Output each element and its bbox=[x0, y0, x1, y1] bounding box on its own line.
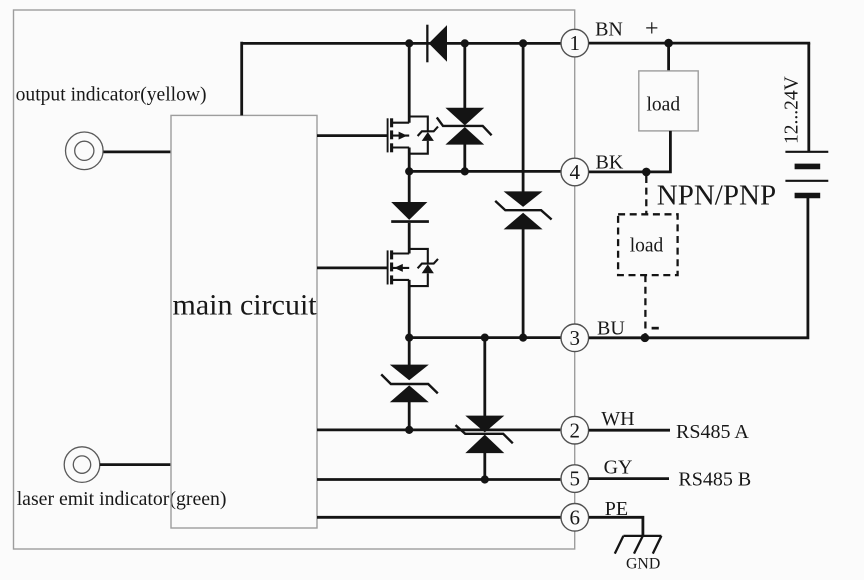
wire: PE bus bbox=[317, 516, 561, 519]
TVS D5 (bidirectional suppressor) bbox=[381, 365, 438, 403]
ground symbol bbox=[615, 536, 662, 554]
wire: BK node to diode D2 bbox=[408, 171, 411, 202]
wire: Q2 gate lead bbox=[317, 266, 388, 269]
wire: rail from top bus to TVS D4 bbox=[522, 43, 525, 191]
svg-text:WH: WH bbox=[601, 408, 634, 430]
svg-text:GY: GY bbox=[604, 457, 633, 479]
wire: TVS D6 to GY bus bbox=[483, 453, 486, 480]
svg-text:5: 5 bbox=[570, 467, 581, 491]
junction: BU / Q2 source bbox=[405, 334, 413, 342]
terminal 2 bbox=[561, 416, 589, 444]
transistor Q1 (high-side MOSFET with body zener) bbox=[388, 117, 438, 154]
junction: BK / TVS D3 bbox=[461, 167, 469, 175]
sensor enclosure outline bbox=[14, 10, 575, 549]
wire: battery positive lead bbox=[807, 43, 810, 152]
junction: BK / dashed load tap bbox=[642, 168, 651, 177]
TVS D4 (bidirectional suppressor) bbox=[495, 191, 551, 229]
transistor Q2 (low-side MOSFET with body zener) bbox=[388, 249, 438, 286]
dashed wire: dashed load to BU node bbox=[644, 275, 646, 336]
main circuit block U1 bbox=[171, 115, 317, 528]
diode D1 (reverse polarity protection) bbox=[426, 25, 447, 63]
wire: TVS D5 to WH bus bbox=[408, 402, 411, 430]
junction: BU / dashed load bbox=[641, 334, 650, 343]
svg-text:+: + bbox=[645, 16, 659, 42]
svg-text:output indicator(yellow): output indicator(yellow) bbox=[16, 85, 207, 106]
wire: BK bus bbox=[409, 170, 560, 173]
wire: BU node to TVS D5 bbox=[408, 338, 411, 365]
wire: GY bus bbox=[317, 478, 560, 481]
wire: Q1 drain rail bbox=[408, 43, 411, 122]
svg-text:BK: BK bbox=[596, 152, 624, 174]
svg-text:4: 4 bbox=[570, 160, 581, 184]
terminal 4 bbox=[561, 158, 589, 186]
output indicator LED (yellow) bbox=[66, 132, 104, 170]
svg-text:2: 2 bbox=[570, 418, 581, 442]
load box (solid) bbox=[639, 71, 698, 131]
wire: terminal 3 to battery negative bbox=[589, 198, 808, 338]
junction: BK / Q1 source bbox=[405, 167, 413, 175]
wire: output indicator to main circuit bbox=[104, 150, 172, 153]
wire: BU node to TVS D6 bbox=[483, 338, 486, 416]
svg-text:load: load bbox=[630, 235, 664, 256]
wire: TVS D4 to BU node bbox=[522, 229, 525, 338]
junction: BU / D4 rail bbox=[519, 334, 527, 342]
wire: TVS D3 bottom lead bbox=[463, 144, 466, 171]
wire: terminal 2 to RS485 A bbox=[589, 429, 670, 432]
wire: WH bus bbox=[317, 428, 560, 431]
terminal 5 bbox=[561, 465, 589, 493]
terminal 3 bbox=[561, 324, 589, 352]
svg-text:BN: BN bbox=[595, 18, 623, 40]
junction: load tap on positive rail bbox=[664, 39, 673, 48]
wire: terminal 1 to battery positive bbox=[589, 42, 810, 45]
junction: top bus / D4 rail bbox=[519, 39, 527, 47]
junction: top bus / TVS D3 bbox=[461, 39, 469, 47]
junction: BU / TVS D6 bbox=[481, 334, 489, 342]
wire: terminal 5 to RS485 B bbox=[589, 477, 669, 480]
wire: terminal 6 to ground bbox=[589, 517, 643, 536]
wire: laser emit indicator to main circuit bbox=[100, 463, 171, 466]
wire: top supply bus bbox=[242, 42, 561, 45]
wire: Q1 gate lead bbox=[317, 134, 388, 137]
wire: drop from top bus to main circuit bbox=[240, 42, 243, 116]
wire: Q2 source to BU node bbox=[408, 280, 411, 338]
svg-text:load: load bbox=[647, 94, 681, 115]
wire: TVS D3 top lead bbox=[463, 43, 466, 108]
wire: load bottom to terminal 4 (BK) bbox=[589, 131, 670, 172]
TVS D3 (bidirectional suppressor) bbox=[437, 108, 492, 145]
junction: WH / TVS D5 bbox=[405, 426, 413, 434]
svg-text:3: 3 bbox=[570, 326, 581, 350]
battery B1 12...24V bbox=[785, 152, 828, 196]
wire: BU bus bbox=[409, 336, 560, 339]
wire: Q1 source to BK node bbox=[408, 148, 411, 172]
svg-text:6: 6 bbox=[570, 505, 581, 529]
TVS D6 (bidirectional suppressor) bbox=[456, 416, 513, 454]
svg-text:laser emit indicator(green): laser emit indicator(green) bbox=[17, 488, 227, 510]
dashed wire: BK tap to NPN/PNP load bbox=[645, 176, 647, 214]
junction: GY / TVS D6 bbox=[481, 475, 489, 483]
svg-text:12...24V: 12...24V bbox=[782, 76, 803, 144]
laser emit indicator LED (green) bbox=[64, 447, 100, 483]
svg-text:RS485 B: RS485 B bbox=[678, 469, 751, 491]
label: minus sign bbox=[652, 327, 659, 330]
svg-text:main circuit: main circuit bbox=[173, 289, 318, 322]
junction: top bus / Q1 drain bbox=[405, 39, 413, 47]
wire: load top lead bbox=[667, 43, 670, 71]
diode D2 bbox=[391, 202, 429, 223]
svg-text:1: 1 bbox=[570, 31, 581, 55]
terminal 6 bbox=[561, 504, 589, 532]
svg-text:GND: GND bbox=[626, 556, 660, 573]
wire: diode D2 to Q2 drain bbox=[408, 223, 411, 254]
svg-text:BU: BU bbox=[597, 317, 625, 339]
load box (dashed, NPN/PNP option) bbox=[618, 214, 678, 275]
svg-text:RS485 A: RS485 A bbox=[676, 421, 749, 443]
terminal 1 bbox=[561, 29, 589, 57]
svg-text:NPN/PNP: NPN/PNP bbox=[657, 179, 776, 211]
